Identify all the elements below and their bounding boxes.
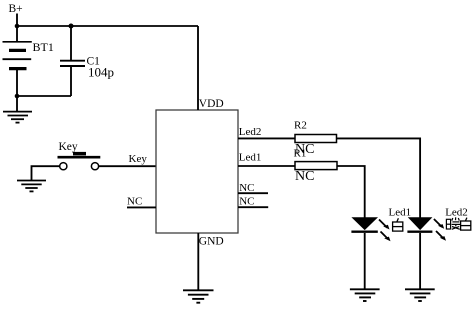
ground IC <box>183 290 214 302</box>
wire R2 to Led2 LED <box>337 138 421 217</box>
pushbutton S1 <box>58 152 101 170</box>
ground Led2 <box>405 289 435 301</box>
svg-text:GND: GND <box>199 236 224 248</box>
svg-text:Led2: Led2 <box>239 126 262 138</box>
junction dot at C1 top <box>69 24 74 29</box>
label bai white glyph <box>393 218 403 231</box>
wire NC right stub 2 <box>238 206 268 208</box>
wire VDD <box>197 26 199 110</box>
battery BT1 <box>3 42 32 69</box>
svg-text:B+: B+ <box>9 3 23 15</box>
wire top rail to VDD <box>17 25 198 27</box>
svg-text:104p: 104p <box>88 65 114 80</box>
junction dot at battery bottom <box>15 94 20 99</box>
capacitor C1 <box>60 26 85 96</box>
wire Led2 pin to R2 <box>238 137 295 139</box>
svg-text:Led1: Led1 <box>389 207 412 219</box>
LED D2 light arrows <box>434 219 446 241</box>
svg-text:Key: Key <box>59 141 78 153</box>
svg-text:Led1: Led1 <box>239 151 262 163</box>
label bai white glyph 2 <box>461 218 471 231</box>
svg-text:Key: Key <box>129 153 148 165</box>
wire button left to ground <box>32 166 60 180</box>
wire R1 to Led1 LED <box>337 166 365 218</box>
ground key <box>17 181 46 192</box>
ground battery <box>3 112 32 123</box>
resistor R1 <box>295 162 337 170</box>
svg-text:R2: R2 <box>294 120 307 132</box>
svg-text:BT1: BT1 <box>33 40 54 54</box>
op-amp U1 IC body <box>156 110 238 233</box>
LED D1 light arrows <box>379 220 391 242</box>
svg-text:NC: NC <box>239 182 254 194</box>
wire button right to IC Key pin <box>99 165 156 167</box>
svg-text:VDD: VDD <box>199 98 224 110</box>
wire battery bottom lead <box>16 70 18 96</box>
junction dot at B+ rail <box>15 24 20 29</box>
wire bottom rail battery to C1 <box>17 95 71 97</box>
LED D1 Led1 <box>351 217 378 289</box>
svg-text:NC: NC <box>239 195 254 207</box>
label nuan warm glyph <box>446 217 460 229</box>
LED D2 Led2 <box>407 217 432 289</box>
wire NC left stub <box>127 206 156 208</box>
svg-text:NC: NC <box>295 169 314 184</box>
ground Led1 <box>350 289 380 301</box>
wire GND to ground <box>197 233 199 290</box>
wire B+ lead <box>16 14 18 42</box>
svg-text:R1: R1 <box>294 148 307 160</box>
wire NC right stub 1 <box>238 192 268 194</box>
svg-text:Led2: Led2 <box>445 206 468 218</box>
resistor R2 <box>295 135 337 143</box>
svg-text:NC: NC <box>127 196 142 208</box>
wire Led1 pin to R1 <box>238 165 295 167</box>
wire to battery ground <box>16 96 18 111</box>
